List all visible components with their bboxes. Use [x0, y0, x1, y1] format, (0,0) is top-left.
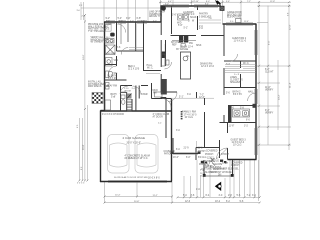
wall: playrm/bath vertical x120.5 [120, 86, 122, 112]
svg-text:HALL: HALL [147, 64, 153, 67]
svg-text:CLG HT: CLG HT [265, 71, 274, 73]
wall: hall vertical x143 [143, 22, 145, 71]
wall: master hall y80 [105, 79, 127, 81]
wall: mud y98.5 [152, 98, 172, 100]
window: right wall dining [254, 30, 256, 55]
svg-text:TILE: TILE [214, 161, 219, 163]
wall: laundry bottom y35.5 [171, 35, 197, 37]
wall: hall x219 [219, 140, 221, 158]
washer dryer dark squares [179, 36, 183, 43]
wall: bath closet vertical 2 [127, 22, 129, 42]
wall: bath band y87.5 [224, 87, 256, 89]
svg-text:16'-0 X 8'-0: 16'-0 X 8'-0 [148, 178, 160, 180]
svg-text:10'-2: 10'-2 [215, 201, 221, 203]
wall: top-left exterior [104, 21, 161, 23]
bottom dim lines right [178, 196, 261, 198]
stairs treads [127, 99, 132, 101]
svg-text:11'-8": 11'-8" [229, 126, 235, 128]
svg-text:REF: REF [172, 45, 177, 47]
svg-text:RM: RM [153, 93, 157, 95]
svg-text:W.I.C.: W.I.C. [243, 63, 250, 65]
fridge/oven dark rect [161, 79, 167, 95]
svg-text:12'-0": 12'-0" [290, 24, 292, 30]
entry arrow icon (black chevron) [215, 182, 221, 191]
svg-text:7'-2": 7'-2" [247, 1, 251, 3]
post: filled square top-middle left end [161, 6, 166, 11]
wall: y64 bath [105, 64, 117, 66]
cabinet master bath [106, 58, 113, 67]
svg-text:6'-0": 6'-0" [165, 4, 169, 6]
wall: family y97.5 [161, 97, 167, 99]
toilet dark blob upper-left bath [110, 33, 115, 37]
wall: y70 closet [144, 70, 162, 72]
svg-text:12'-6: 12'-6 [185, 201, 191, 203]
svg-text:3'-6": 3'-6" [172, 15, 177, 17]
wall: left exterior [104, 22, 106, 111]
arc: kitchen to family [168, 93, 177, 102]
wall: entry verticals [195, 148, 197, 161]
svg-text:12'-0 X 13'-6: 12'-0 X 13'-6 [201, 66, 215, 68]
svg-text:PANTRY: PANTRY [199, 13, 209, 16]
arc: mud to garage [162, 99, 171, 108]
toilet master bath [106, 71, 109, 78]
svg-text:#3 REBAR AT 18" O.C.: #3 REBAR AT 18" O.C. [125, 157, 149, 160]
wall: garage top [100, 110, 172, 112]
svg-text:STEP: STEP [222, 163, 228, 165]
window: top-left wall [106, 20, 115, 22]
svg-text:20'-0" X 20'-0": 20'-0" X 20'-0" [127, 143, 142, 145]
entry dark marks [201, 160, 227, 164]
arc: bath door [109, 66, 117, 74]
svg-text:W/ OWNER: W/ OWNER [91, 42, 104, 44]
svg-text:11'-0: 11'-0 [198, 148, 204, 150]
svg-text:4'-0": 4'-0" [130, 20, 134, 22]
kitchen counter top run [172, 40, 196, 42]
arc: powder door [165, 62, 172, 69]
wall: mid section left vertical [160, 6, 162, 23]
wall: family east x204.5 [204, 98, 206, 105]
arc: entry door [201, 160, 210, 169]
wall: hall y122 right [220, 122, 228, 124]
wall: step left-bottom [101, 110, 105, 112]
wic shelves [146, 73, 160, 75]
wall: patio left x173 lower [172, 138, 174, 154]
svg-text:9'-0 X 8'-0 OH DOOR: 9'-0 X 8'-0 OH DOOR [102, 114, 124, 116]
svg-text:21'-9: 21'-9 [184, 148, 190, 150]
svg-text:TYP. THIS AREA: TYP. THIS AREA [88, 30, 106, 33]
wall: family left x166 [165, 98, 167, 139]
top extension verticals [103, 0, 105, 22]
wall: x151.5 vertical [151, 83, 153, 99]
wall: garage right / family left [171, 99, 173, 182]
wall: garage bottom [100, 181, 172, 183]
svg-text:31'-4": 31'-4" [290, 82, 292, 88]
right horizontal extension lines [257, 5, 291, 7]
post: window wall ends [171, 151, 175, 153]
svg-text:4'-2": 4'-2" [153, 20, 157, 22]
wall: kitchen west x161 [160, 22, 162, 35]
svg-text:5'-1": 5'-1" [179, 97, 184, 99]
wall: y85 hall [121, 85, 133, 87]
svg-text:8'-0": 8'-0" [206, 1, 210, 3]
closet top-left shelves [129, 47, 143, 49]
window: family bottom [173, 151, 198, 153]
wall: bed2 bottom y61 [224, 60, 256, 62]
arc: hall doors below y85.5 [133, 86, 142, 95]
svg-text:SHELVES: SHELVES [230, 82, 241, 84]
wall: dining right x224 [223, 24, 225, 56]
wall: stair right [131, 99, 133, 111]
garage door: double line [108, 179, 167, 181]
wall: y92.3 short [121, 91, 127, 93]
svg-text:2 CAR GARAGE: 2 CAR GARAGE [123, 136, 146, 140]
keynote arrow top right [215, 0, 220, 5]
mud bench [155, 92, 163, 97]
svg-text:MFR SPECS: MFR SPECS [88, 86, 102, 88]
svg-text:16'-0": 16'-0" [173, 157, 179, 159]
wall: closet x135.7 [135, 22, 137, 51]
wall: mid-top exterior [161, 5, 222, 7]
svg-text:9'-6": 9'-6" [226, 1, 230, 3]
svg-text:VERIFY: VERIFY [265, 89, 274, 91]
wall: family bottom window wall y153.5 [171, 153, 201, 155]
svg-text:PORCH: PORCH [231, 165, 240, 167]
bottom extension verticals [104, 182, 106, 203]
svg-text:14'-2": 14'-2" [279, 94, 281, 100]
electrical QR hatch block [92, 93, 103, 104]
washer dryer light squares [178, 14, 189, 20]
svg-text:PLAY RM: PLAY RM [107, 85, 117, 88]
shower master bath [106, 45, 116, 55]
top dimension line [159, 1, 291, 3]
closet rods right band [225, 64, 256, 66]
svg-text:6'-4": 6'-4" [168, 1, 172, 3]
arc: closet door top-left [117, 24, 126, 33]
svg-text:7'-6 X 9'-0: 7'-6 X 9'-0 [184, 14, 195, 16]
wall: plumbing wall x121 [120, 22, 122, 44]
svg-text:9'-6": 9'-6" [269, 40, 271, 45]
svg-text:8'-4": 8'-4" [205, 4, 209, 6]
svg-text:PORCH: PORCH [205, 154, 214, 156]
closet hooks top [106, 25, 112, 32]
vanity master bath (two bowls) [105, 39, 114, 44]
svg-text:5'-8": 5'-8" [141, 20, 145, 22]
svg-text:5' 5' 5' 5': 5' 5' 5' 5' [77, 182, 85, 184]
wall: kitchen left x165.5 [165, 40, 167, 59]
svg-text:W.C.: W.C. [106, 37, 111, 39]
kitchen island [181, 52, 191, 79]
right bath vanity sinks [233, 109, 250, 117]
svg-text:HALL: HALL [248, 91, 254, 94]
svg-text:9'-2": 9'-2" [106, 20, 110, 22]
window tag box top-right [236, 19, 242, 23]
wall: butler x165.4 [164, 44, 166, 66]
svg-text:PL HT: PL HT [200, 175, 206, 177]
window: mid-top wall [163, 4, 189, 6]
svg-text:ABOVE TYP.: ABOVE TYP. [149, 15, 163, 18]
wall: bath closet vertical 1 [116, 22, 118, 51]
svg-text:UP 16R: UP 16R [124, 90, 132, 92]
bottom dim lines garage [105, 196, 173, 198]
wall: pantry x197.5 [197, 6, 199, 10]
window: right-top wall [226, 22, 253, 24]
svg-text:VAN: VAN [114, 59, 119, 62]
car 1 [108, 135, 130, 174]
svg-text:SLOPE SLAB TO DOOR 1/8"/FT MIN: SLOPE SLAB TO DOOR 1/8"/FT MIN [114, 176, 148, 179]
porch posts [203, 174, 206, 177]
svg-text:BATH 2: BATH 2 [233, 91, 242, 94]
arc: hall-bath2 door [248, 93, 256, 101]
svg-text:COVERED: COVERED [206, 151, 218, 153]
wall: stair hall right x135.9 [135, 86, 137, 112]
wall: right exterior [255, 24, 257, 160]
svg-text:SOAK: SOAK [190, 16, 197, 19]
svg-text:WC: WC [114, 73, 118, 75]
svg-text:D + R: D + R [234, 74, 240, 76]
svg-text:11'2 X 10'0: 11'2 X 10'0 [128, 69, 140, 71]
right dim verticals [288, 4, 290, 150]
wall: kitchen/family y92 [161, 91, 178, 93]
butler counter marks [166, 60, 169, 65]
svg-text:VERIFY: VERIFY [265, 112, 274, 114]
svg-text:STONE: STONE [205, 161, 213, 163]
kitchen sink [181, 44, 185, 48]
svg-text:12X12: 12X12 [207, 158, 214, 160]
svg-text:SHOWER: SHOWER [107, 53, 117, 55]
car 2 [135, 135, 158, 174]
svg-text:11'-6 X 11'-0: 11'-6 X 11'-0 [234, 41, 247, 43]
wall: bath y105 [228, 105, 256, 107]
svg-text:STOOP: STOOP [221, 154, 229, 156]
svg-text:10' CLG: 10' CLG [233, 145, 242, 147]
wall: closet shelf y51 [117, 50, 144, 52]
svg-text:5'-6": 5'-6" [178, 25, 183, 27]
svg-text:ENTRY: ENTRY [198, 151, 206, 153]
svg-text:8'0 CLG: 8'0 CLG [198, 157, 207, 159]
svg-text:W.I.C.: W.I.C. [147, 68, 154, 70]
svg-text:6X6 POST W/ BASE: 6X6 POST W/ BASE [211, 171, 233, 174]
svg-text:PATIO: PATIO [164, 152, 171, 155]
svg-text:20'-8": 20'-8" [134, 201, 140, 203]
arc: bath hall door [121, 48, 128, 55]
wall: stair left [126, 92, 128, 111]
svg-text:12'-0": 12'-0" [199, 97, 205, 99]
svg-text:5'x8': 5'x8' [111, 97, 116, 99]
plumbing wall dark post right bath [228, 106, 232, 123]
svg-text:36" RANGE: 36" RANGE [176, 48, 189, 51]
arc: bed2 door [230, 54, 238, 62]
arc: guest bed door [217, 148, 228, 159]
svg-text:3'-6": 3'-6" [119, 20, 123, 22]
stair door dark marks [127, 94, 132, 99]
svg-text:20'-8": 20'-8" [83, 144, 85, 150]
wall: right-top exterior [223, 23, 257, 25]
svg-text:STAIR: STAIR [141, 93, 148, 96]
powder fixture dark [162, 52, 165, 59]
jj bath fixtures [121, 95, 125, 99]
wall: kitchen/hall x196.5 [196, 92, 198, 98]
svg-text:R+S: R+S [226, 63, 231, 65]
svg-text:24'-0": 24'-0" [83, 54, 85, 60]
kitchen counter left [162, 54, 166, 66]
svg-text:ELEVATIONS: ELEVATIONS [227, 16, 242, 19]
wall: laundry x171.5 [171, 6, 173, 34]
wall: guest left x227.5 [227, 123, 229, 134]
svg-text:SINK: SINK [196, 45, 202, 47]
svg-text:AT DOOR: AT DOOR [153, 115, 164, 118]
svg-text:BATH: BATH [111, 93, 117, 96]
svg-text:W/D: W/D [177, 23, 182, 25]
wall: mud vertical x139.2 [138, 86, 140, 99]
svg-text:DN: DN [218, 175, 222, 177]
svg-text:12'-8": 12'-8" [270, 1, 275, 3]
svg-text:5'-1": 5'-1" [184, 28, 189, 30]
wall niche marks [106, 83, 110, 86]
pantry shelves [199, 19, 221, 21]
svg-text:6'0 X 9'8: 6'0 X 9'8 [108, 78, 118, 80]
svg-text:11'-2": 11'-2" [153, 195, 158, 197]
wall: garage left [100, 111, 102, 183]
left dim vertical main [84, 15, 86, 181]
svg-text:FAMILY RM: FAMILY RM [182, 110, 196, 114]
svg-text:11'-4": 11'-4" [244, 21, 249, 23]
post: filled square top-middle right end [220, 6, 225, 11]
wall: guest top y122.5 [228, 122, 257, 124]
svg-text:10' CLG: 10' CLG [185, 117, 194, 119]
svg-text:5 SHELVES: 5 SHELVES [199, 17, 212, 19]
svg-text:17'-10": 17'-10" [193, 1, 199, 3]
svg-text:STONE VENEER PER ELEV SEL: STONE VENEER PER ELEV SEL [204, 168, 240, 170]
wall: guest bed bottom [228, 159, 257, 161]
svg-text:8'6 X 5'0: 8'6 X 5'0 [233, 94, 243, 96]
jj bath tub [105, 100, 111, 110]
wall: bath2 mid x240.5 [240, 61, 242, 68]
wall: entry y147.5 [196, 147, 220, 149]
svg-text:10'-4": 10'-4" [115, 194, 121, 196]
svg-text:6'-0": 6'-0" [186, 157, 191, 159]
